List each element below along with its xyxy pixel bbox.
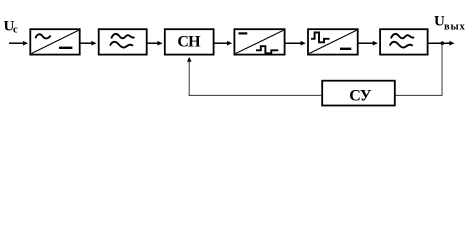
block U3 stabilizer CH [165, 29, 214, 54]
wire output [428, 41, 455, 46]
block U2 input filter [99, 29, 147, 54]
node output junction [441, 41, 445, 45]
symbol DC bar in U4 [239, 32, 248, 34]
label Uc input voltage [4, 19, 19, 36]
wire U4 to U5 [285, 41, 306, 46]
wire U5 to U6 [358, 41, 378, 46]
block U1 AC-DC rectifier [30, 29, 79, 54]
svg-text:СУ: СУ [349, 87, 372, 104]
wire feedback from CY output [189, 94, 323, 96]
svg-text:СН: СН [177, 34, 201, 51]
block U4 DC to pulse inverter [234, 29, 284, 54]
wire U1 to U2 [80, 41, 97, 46]
symbol filter waves in U6 [390, 34, 414, 48]
wire U2 to U3 [147, 41, 163, 46]
wire U3 to U4 [214, 41, 233, 46]
wire feedback down from output node [441, 43, 443, 95]
svg-text:вых: вых [444, 22, 466, 33]
symbol filter waves in U2 [110, 34, 134, 48]
symbol pulse wave in U4 [256, 46, 278, 53]
wire input [9, 41, 28, 46]
svg-text:c: c [13, 25, 18, 36]
label Uvyh output voltage [434, 13, 466, 32]
symbol DC bar in U1 [59, 47, 72, 49]
symbol pulse wave in U5 [311, 33, 330, 43]
block U6 output filter [380, 29, 428, 54]
wire feedback to CY input [395, 94, 443, 96]
block U7 control unit CY [322, 81, 395, 106]
symbol AC tilde in U1 [36, 34, 51, 38]
symbol DC bar in U5 [340, 48, 351, 50]
block U5 pulse to DC rectifier [308, 29, 358, 54]
wire feedback up to CH [187, 57, 192, 96]
